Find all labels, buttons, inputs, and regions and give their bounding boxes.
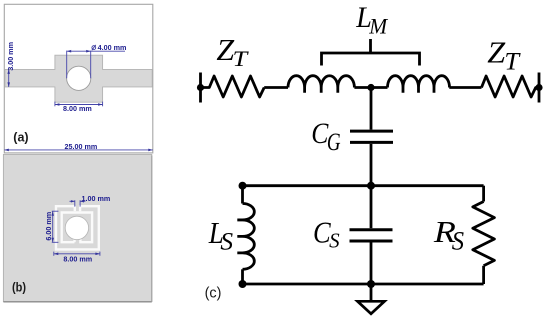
label RS bbox=[433, 216, 465, 256]
dim 4.00 arrow left bbox=[67, 50, 72, 53]
svg-text:(b): (b) bbox=[12, 281, 26, 295]
dim 6.00 line bbox=[52, 211, 54, 242]
wire node to CG bbox=[370, 88, 373, 130]
label ZT right bbox=[487, 35, 521, 76]
label LM bbox=[355, 1, 388, 38]
dim 25.00 arrow right bbox=[148, 149, 153, 152]
node center top dot bbox=[367, 84, 374, 91]
label ZT left bbox=[216, 33, 248, 72]
dim 8.00a arrow left bbox=[55, 103, 60, 106]
dim 4.00 line bbox=[67, 50, 125, 52]
capacitor CG bottom plate bbox=[350, 141, 393, 144]
inductor LM right junction ticks bbox=[403, 88, 434, 93]
wire ZT-left to LM bbox=[264, 86, 288, 89]
svg-text:T: T bbox=[504, 47, 520, 75]
svg-text:G: G bbox=[327, 127, 341, 155]
left terminal bbox=[199, 73, 202, 103]
dim 1.00 line with outside arrows bbox=[70, 200, 75, 202]
capacitor CS top plate bbox=[350, 228, 393, 231]
panel (b) right shadow bbox=[151, 156, 153, 302]
wire LM to ZT-right bbox=[449, 86, 481, 89]
resistor ZT left bbox=[201, 76, 265, 97]
svg-text:S: S bbox=[452, 227, 465, 256]
inductor LM left junction ticks bbox=[305, 88, 338, 93]
inner split ring (gap at bottom) bbox=[62, 213, 92, 243]
LM measurement bracket bbox=[322, 53, 420, 66]
node right terminal dot bbox=[535, 84, 542, 91]
wire top rail to CS bbox=[370, 186, 373, 229]
ground stub bbox=[370, 284, 373, 301]
label CS bbox=[313, 215, 340, 252]
panel (b) bottom shadow bbox=[3, 301, 151, 303]
inductor LM left half bbox=[288, 76, 354, 88]
panel (a) background frame bbox=[4, 4, 153, 153]
node top-left dot bbox=[239, 182, 247, 190]
right terminal bbox=[538, 73, 541, 103]
LM bracket stem bbox=[369, 39, 372, 53]
wire top-left down bbox=[241, 186, 244, 204]
svg-text:(a): (a) bbox=[13, 131, 28, 145]
node bottom-left dot bbox=[239, 280, 247, 288]
inductor LS bbox=[243, 204, 255, 270]
svg-text:Z: Z bbox=[487, 35, 505, 69]
dim 1.00 arrow right bbox=[80, 200, 84, 202]
wire CG to top rail bbox=[370, 144, 373, 187]
wire RS to bottom rail bbox=[482, 266, 485, 284]
wire LS to bottom rail bbox=[241, 269, 244, 284]
outer ring gap left tick bbox=[74, 206, 76, 211]
node left terminal dot bbox=[197, 84, 204, 91]
dim 8.00b extension ticks bbox=[53, 252, 55, 256]
node bottom-center dot bbox=[367, 280, 375, 288]
svg-text:C: C bbox=[311, 117, 329, 150]
dim 6.00 arrow down bbox=[51, 238, 54, 243]
svg-text:3.00 mm: 3.00 mm bbox=[6, 42, 15, 71]
dim 25.00 arrow left bbox=[4, 149, 9, 152]
dim 4.00 arrow right bbox=[86, 50, 91, 53]
label CG bbox=[311, 117, 340, 155]
label LS bbox=[208, 216, 234, 255]
svg-text:4.00 mm: 4.00 mm bbox=[98, 43, 127, 52]
inductor LS junction ticks bbox=[237, 220, 242, 253]
dim 6.00 extension lines bbox=[52, 210, 59, 212]
dim 8.00a line bbox=[55, 104, 103, 106]
svg-text:25.00 mm: 25.00 mm bbox=[65, 142, 98, 151]
svg-text:S: S bbox=[220, 227, 233, 255]
dim 25.00 line bbox=[4, 149, 153, 151]
wire top rail to RS bbox=[482, 186, 485, 202]
bottom rail bbox=[243, 283, 484, 286]
outer split ring (gap at top) bbox=[56, 206, 99, 249]
center hole circle bbox=[67, 66, 91, 90]
dim 8.00a extension ticks bbox=[54, 102, 56, 107]
svg-text:(c): (c) bbox=[205, 285, 222, 301]
resistor ZT right bbox=[482, 76, 540, 97]
svg-text:8.00 mm: 8.00 mm bbox=[63, 104, 92, 113]
inner ring gap left tick bbox=[73, 238, 75, 243]
panel (b) background bbox=[3, 154, 151, 301]
dim 3.00 arrow up bbox=[7, 69, 10, 74]
dim 3.00 line bbox=[8, 69, 10, 87]
capacitor CS bottom plate bbox=[350, 240, 393, 243]
center circle (b) bbox=[65, 216, 88, 239]
svg-text:6.00 mm: 6.00 mm bbox=[44, 212, 53, 241]
dim 4.00 text bbox=[92, 43, 127, 52]
dim 4.00 extension lines bbox=[66, 51, 68, 79]
dim 1.00 arrow left bbox=[71, 200, 75, 202]
ground symbol bbox=[358, 301, 385, 314]
dim 3.00 arrow down bbox=[7, 82, 10, 87]
node top-center dot bbox=[367, 182, 375, 190]
inductor LM right half bbox=[388, 76, 450, 88]
dim 8.00b arrow right bbox=[95, 253, 100, 256]
dim 8.00b line bbox=[54, 253, 100, 255]
wire CS to bottom rail bbox=[370, 243, 373, 285]
svg-text:T: T bbox=[233, 47, 249, 72]
svg-text:M: M bbox=[368, 13, 388, 39]
svg-text:1.00 mm: 1.00 mm bbox=[82, 194, 111, 203]
svg-text:8.00 mm: 8.00 mm bbox=[63, 255, 92, 264]
resistor RS bbox=[473, 202, 495, 266]
top rail bbox=[243, 184, 484, 187]
dim 6.00 arrow up bbox=[51, 211, 54, 216]
wire LM center (node A) bbox=[354, 86, 387, 89]
dim 8.00a arrow right bbox=[98, 103, 103, 106]
capacitor CG top plate bbox=[350, 130, 393, 133]
svg-text:S: S bbox=[329, 229, 340, 253]
dim 1.00 extension lines bbox=[74, 200, 76, 206]
microstrip cross (strip + center patch) bbox=[5, 55, 152, 102]
dim 8.00b arrow left bbox=[54, 253, 59, 256]
